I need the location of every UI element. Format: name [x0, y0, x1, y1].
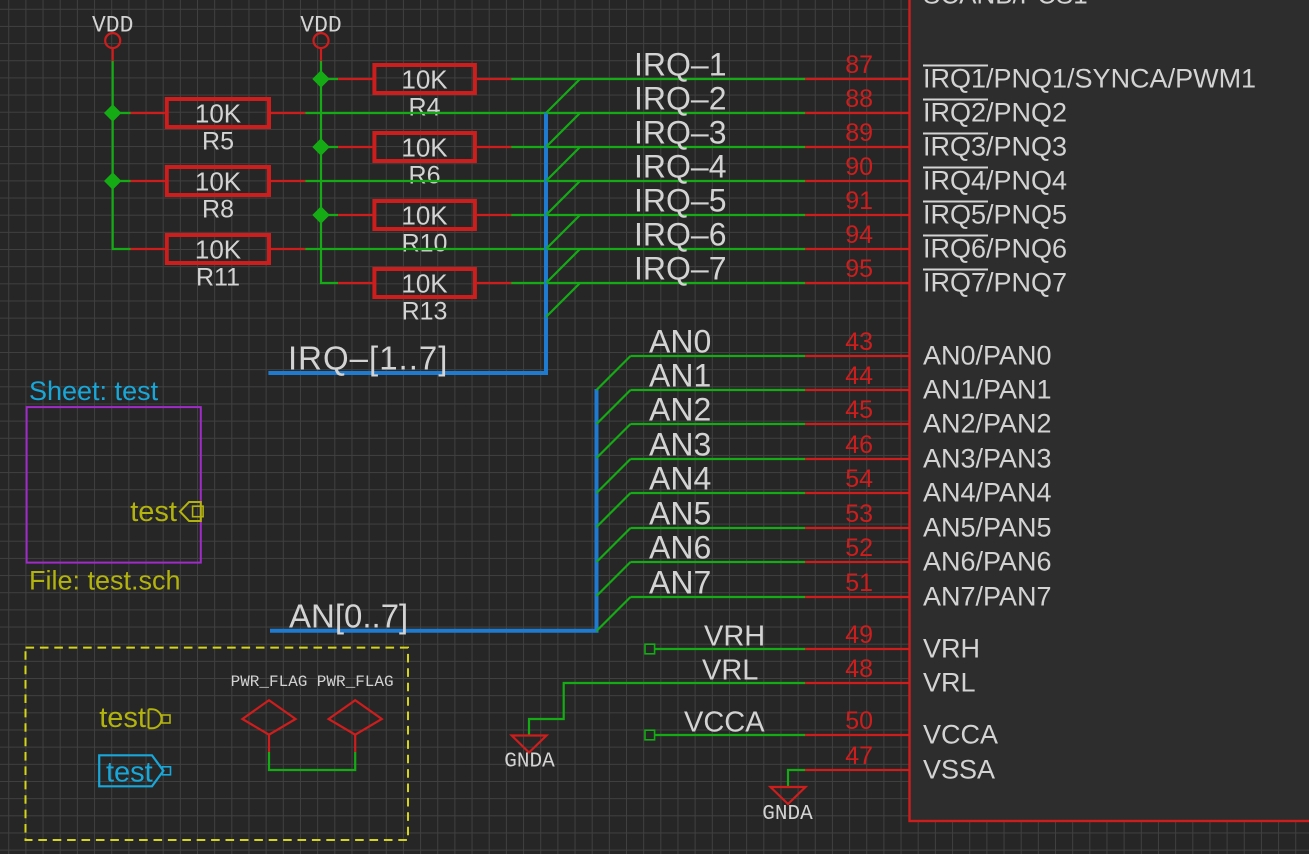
resistor R11 10K [131, 235, 306, 292]
power flag PWR_FLAG [317, 673, 394, 752]
pin 50 VCCA [805, 707, 998, 750]
ground GNDA (left) [504, 736, 555, 774]
svg-text:GNDA: GNDA [762, 803, 813, 826]
bus IRQ-[1..7] [268, 113, 546, 373]
wire stub rail1 to R5 [113, 112, 131, 114]
svg-text:51: 51 [845, 569, 873, 597]
wire AN4 [631, 492, 806, 494]
wire stub rail2 y=147 [321, 146, 338, 148]
svg-text:AN5: AN5 [649, 496, 711, 532]
svg-text:43: 43 [845, 328, 873, 356]
svg-text:test: test [106, 757, 153, 789]
svg-text:46: 46 [845, 431, 873, 459]
wire IRQ-7 [511, 282, 805, 284]
svg-text:PWR_FLAG: PWR_FLAG [231, 673, 308, 691]
svg-text:94: 94 [845, 221, 873, 249]
svg-text:44: 44 [845, 362, 873, 390]
bus entry AN5 [597, 528, 631, 562]
sheet symbol "test" [27, 407, 201, 562]
wire AN5 [631, 527, 806, 529]
pin 90 IRQ4/PNQ4 [805, 153, 1067, 196]
svg-text:AN6/PAN6: AN6/PAN6 [923, 547, 1052, 577]
svg-text:50: 50 [845, 707, 873, 735]
svg-text:10K: 10K [401, 65, 448, 95]
bus entry IRQ-6 [546, 249, 580, 283]
svg-text:R4: R4 [409, 94, 441, 122]
hierarchical label test [99, 702, 170, 734]
resistor R8 10K [131, 167, 306, 224]
wire IRQ-3 [511, 146, 805, 148]
wire VCCA [655, 734, 805, 736]
svg-text:SCANB/PCS1: SCANB/PCS1 [923, 0, 1088, 10]
wire AN2 [631, 423, 806, 425]
svg-text:91: 91 [845, 187, 873, 215]
svg-text:IRQ3/PNQ3: IRQ3/PNQ3 [923, 132, 1067, 162]
wire AN3 [631, 458, 806, 460]
wire AN0 [631, 355, 806, 357]
svg-text:54: 54 [845, 465, 873, 493]
junction on rail1 row IRQ-4 [104, 172, 121, 189]
wire stub rail2 y=79 [321, 78, 338, 80]
svg-text:10K: 10K [195, 167, 242, 197]
pin 87 IRQ1/PNQ1/SYNCA/PWM1 [805, 51, 1256, 94]
pin 47 VSSA [805, 742, 995, 785]
svg-text:VRH: VRH [704, 621, 765, 653]
wire AN1 [631, 389, 806, 391]
bus entry IRQ-5 [546, 215, 580, 249]
svg-text:49: 49 [845, 621, 873, 649]
unconnected end marker VRH [645, 644, 655, 654]
svg-text:R13: R13 [402, 298, 448, 326]
pin 51 AN7/PAN7 [805, 569, 1052, 612]
wire stub rail2 y=215 [321, 214, 338, 216]
svg-text:R11: R11 [196, 264, 240, 292]
svg-text:89: 89 [845, 119, 873, 147]
junction on rail2 y=147 [312, 138, 329, 155]
wire IRQ-5 [511, 214, 805, 216]
svg-text:AN1: AN1 [649, 358, 711, 394]
wire VSSA to ground [788, 770, 805, 787]
wire VRH [655, 648, 805, 650]
pin 91 IRQ5/PNQ5 [805, 187, 1067, 230]
bus entry IRQ-3 [546, 147, 580, 181]
svg-text:Sheet: test: Sheet: test [29, 376, 159, 406]
bus entry IRQ-2 [546, 113, 580, 147]
svg-text:53: 53 [845, 500, 873, 528]
svg-text:AN7/PAN7: AN7/PAN7 [923, 582, 1052, 612]
svg-text:IRQ1/PNQ1/SYNCA/PWM1: IRQ1/PNQ1/SYNCA/PWM1 [923, 64, 1256, 94]
pin 94 IRQ6/PNQ6 [805, 221, 1067, 264]
svg-text:IRQ–5: IRQ–5 [634, 183, 726, 219]
pin 95 IRQ7/PNQ7 [805, 255, 1067, 298]
resistor R6 10K [338, 133, 511, 190]
wire AN6 [631, 561, 806, 563]
bus entry AN1 [597, 390, 631, 424]
svg-text:VRL: VRL [923, 668, 976, 698]
svg-text:AN3/PAN3: AN3/PAN3 [923, 444, 1052, 474]
bus entry AN3 [597, 459, 631, 493]
svg-text:VCCA: VCCA [923, 720, 998, 750]
junction on rail2 y=215 [312, 206, 329, 223]
wire stub rail1 to R8 [113, 180, 131, 182]
pin 54 AN4/PAN4 [805, 465, 1052, 508]
wire IRQ-4 [305, 180, 805, 182]
svg-text:R10: R10 [402, 230, 448, 258]
pin 49 VRH [805, 621, 980, 664]
resistor R5 10K [131, 99, 306, 156]
sheet pin "test" [130, 496, 203, 528]
pin 89 IRQ3/PNQ3 [805, 119, 1067, 162]
svg-text:47: 47 [845, 742, 873, 770]
svg-text:IRQ–[1..7]: IRQ–[1..7] [288, 340, 448, 377]
bus entry AN7 [597, 597, 631, 631]
svg-text:VRL: VRL [702, 655, 758, 687]
svg-text:IRQ–2: IRQ–2 [634, 81, 726, 117]
svg-text:VRH: VRH [923, 634, 980, 664]
svg-text:test: test [130, 496, 177, 528]
svg-text:52: 52 [845, 534, 873, 562]
svg-text:AN5/PAN5: AN5/PAN5 [923, 513, 1052, 543]
unconnected end marker VCCA [645, 730, 655, 740]
bus entry AN6 [597, 562, 631, 596]
svg-text:AN[0..7]: AN[0..7] [289, 597, 408, 634]
svg-text:10K: 10K [401, 133, 448, 163]
svg-text:VSSA: VSSA [923, 755, 995, 785]
svg-text:IRQ4/PNQ4: IRQ4/PNQ4 [923, 166, 1067, 196]
ground GNDA (right) [762, 787, 813, 826]
svg-text:IRQ–3: IRQ–3 [634, 115, 726, 151]
pin 53 AN5/PAN5 [805, 500, 1052, 543]
resistor R10 10K [338, 201, 511, 258]
svg-text:IRQ5/PNQ5: IRQ5/PNQ5 [923, 200, 1067, 230]
dashed selection box [26, 648, 409, 840]
svg-text:87: 87 [845, 51, 873, 79]
wire VDD rail 1 [113, 61, 131, 249]
wire IRQ-1 [511, 78, 805, 80]
svg-text:AN4: AN4 [649, 461, 711, 497]
bus entry AN4 [597, 493, 631, 527]
svg-text:AN2: AN2 [649, 392, 711, 428]
wire IRQ-6 [305, 248, 805, 250]
pin 45 AN2/PAN2 [805, 396, 1052, 439]
svg-text:AN6: AN6 [649, 530, 711, 566]
svg-text:48: 48 [845, 655, 873, 683]
svg-text:IRQ–4: IRQ–4 [634, 149, 726, 185]
svg-text:45: 45 [845, 396, 873, 424]
wire VDD rail 2 [321, 61, 338, 283]
svg-text:VDD: VDD [92, 13, 133, 39]
svg-text:VDD: VDD [300, 13, 341, 39]
resistor R13 10K [338, 269, 511, 326]
svg-text:95: 95 [845, 255, 873, 283]
power symbol VDD [92, 13, 133, 62]
svg-text:File: test.sch: File: test.sch [29, 566, 181, 596]
svg-text:10K: 10K [401, 269, 448, 299]
pin 43 AN0/PAN0 [805, 328, 1052, 371]
svg-text:10K: 10K [401, 201, 448, 231]
svg-text:AN4/PAN4: AN4/PAN4 [923, 478, 1052, 508]
svg-text:AN3: AN3 [649, 427, 711, 463]
svg-text:IRQ6/PNQ6: IRQ6/PNQ6 [923, 234, 1067, 264]
pin 52 AN6/PAN6 [805, 534, 1052, 577]
wire VRL [529, 683, 805, 736]
wire AN7 [631, 596, 806, 598]
pin 46 AN3/PAN3 [805, 431, 1052, 474]
svg-text:GNDA: GNDA [504, 751, 555, 774]
svg-text:IRQ–6: IRQ–6 [634, 217, 726, 253]
svg-text:AN0: AN0 [649, 324, 711, 360]
bus entry IRQ-4 [546, 181, 580, 215]
pin 44 AN1/PAN1 [805, 362, 1052, 405]
bus AN[0..7] [270, 389, 597, 631]
wire IRQ-2 [305, 112, 805, 114]
svg-text:IRQ2/PNQ2: IRQ2/PNQ2 [923, 98, 1067, 128]
junction on rail1 row IRQ-2 [104, 104, 121, 121]
wire joining PWR_FLAGs [269, 752, 355, 770]
power symbol VDD [300, 13, 341, 62]
bus entry AN0 [597, 356, 631, 390]
svg-text:AN7: AN7 [649, 565, 711, 601]
pin 88 IRQ2/PNQ2 [805, 85, 1067, 128]
power flag PWR_FLAG [231, 673, 308, 752]
svg-text:IRQ–7: IRQ–7 [634, 251, 726, 287]
bus entry IRQ-1 [546, 79, 580, 113]
svg-text:88: 88 [845, 85, 873, 113]
resistor R4 10K [338, 65, 511, 122]
svg-text:R6: R6 [409, 162, 441, 190]
junction on rail2 y=79 [312, 70, 329, 87]
svg-text:test: test [99, 702, 146, 734]
svg-text:10K: 10K [195, 235, 242, 265]
svg-text:R8: R8 [202, 196, 234, 224]
bus entry AN2 [597, 424, 631, 458]
svg-text:R5: R5 [202, 128, 234, 156]
svg-text:IRQ7/PNQ7: IRQ7/PNQ7 [923, 268, 1067, 298]
svg-text:90: 90 [845, 153, 873, 181]
IC U? body [910, 0, 1309, 821]
svg-text:VCCA: VCCA [684, 707, 765, 739]
svg-text:AN0/PAN0: AN0/PAN0 [923, 341, 1052, 371]
pin 48 VRL [805, 655, 976, 698]
svg-text:PWR_FLAG: PWR_FLAG [317, 673, 394, 691]
global label test [99, 755, 170, 788]
svg-text:IRQ–1: IRQ–1 [634, 47, 726, 83]
svg-text:10K: 10K [195, 99, 242, 129]
svg-text:AN1/PAN1: AN1/PAN1 [923, 375, 1052, 405]
svg-text:AN2/PAN2: AN2/PAN2 [923, 409, 1052, 439]
bus entry IRQ-7 [546, 283, 580, 317]
